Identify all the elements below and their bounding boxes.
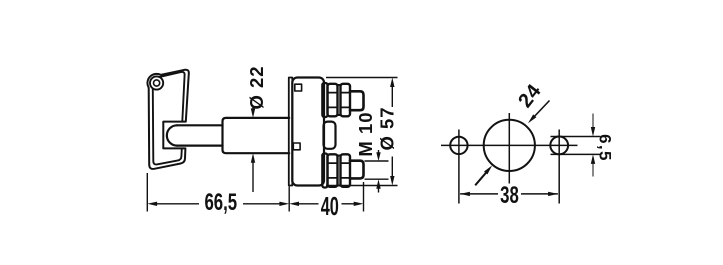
key hole ring xyxy=(150,76,163,89)
arrow unlabeled leader xyxy=(484,165,492,174)
arrow 6,5 up xyxy=(591,154,595,164)
left small circle vertical line / 38 extension xyxy=(458,130,460,204)
key hole xyxy=(154,80,160,86)
right small circle vertical line / 38 extension xyxy=(558,130,560,204)
dim M10 extension top xyxy=(365,160,389,162)
shaft bar bottom line xyxy=(177,145,223,147)
arrow M10 up xyxy=(376,179,380,189)
dim 38 line right seg xyxy=(521,193,558,195)
bottom stud washer2 xyxy=(338,156,341,186)
arrow 24 leader xyxy=(528,114,536,123)
arrow 40 right xyxy=(354,202,364,206)
key handle outer outline xyxy=(147,70,188,169)
vertical centerline big circle xyxy=(508,113,510,184)
arrowheads left view xyxy=(147,78,394,207)
top stud washer1 xyxy=(322,83,327,117)
dim O57 line upper seg xyxy=(391,85,393,108)
arrow O57 down xyxy=(390,176,394,186)
arrow O57 up xyxy=(390,78,394,88)
unlabeled leader xyxy=(475,170,488,186)
top stud nut1 xyxy=(328,84,338,117)
key handle inner outline lower xyxy=(153,89,182,164)
dim M10 extension bottom xyxy=(365,178,389,180)
svg-text:40: 40 xyxy=(321,191,339,221)
dim M10 upper stem xyxy=(378,150,380,154)
horizontal centerline xyxy=(441,144,578,146)
bottom stud nut2 xyxy=(341,154,351,187)
big circle xyxy=(484,120,535,171)
svg-text:6,5: 6,5 xyxy=(596,134,615,162)
cylinder O22 xyxy=(223,118,290,153)
dim 40 line right seg xyxy=(342,203,357,205)
svg-text:Ø 22: Ø 22 xyxy=(246,65,267,109)
dim O57 extension top xyxy=(326,77,398,79)
shaft rounded end xyxy=(167,125,177,145)
bottom stud tip M10 xyxy=(350,161,364,179)
dim 66,5 line left seg xyxy=(154,203,199,205)
arrow 38 left xyxy=(460,192,470,196)
dim 6,5 upper stem xyxy=(592,114,594,130)
switch body xyxy=(292,78,324,186)
dim 38 line left seg xyxy=(460,193,498,195)
left small circle xyxy=(450,137,467,154)
shaft bar top line xyxy=(177,124,223,126)
arrow 66,5 right xyxy=(279,202,289,206)
arrow 40 left xyxy=(289,202,299,206)
dim 40 extension right xyxy=(363,182,365,212)
key handle inner outline xyxy=(160,72,185,122)
dim O57 extension bottom xyxy=(326,185,398,187)
arrow 6,5 down xyxy=(591,127,595,137)
dim M10 lower stem xyxy=(378,187,380,193)
right small circle xyxy=(550,137,568,155)
dim 6,5 lower stem xyxy=(592,162,594,177)
dimension lines xyxy=(147,78,397,212)
top stud nut2 xyxy=(341,84,351,117)
dim O22 lower arrow stem xyxy=(252,161,254,193)
svg-text:38: 38 xyxy=(500,182,519,209)
svg-text:M 10: M 10 xyxy=(355,111,376,156)
mounting flange plate xyxy=(289,78,293,186)
arrow O22 up xyxy=(251,153,255,163)
dim 66,5 extension left xyxy=(146,173,148,212)
arrow O22 down xyxy=(251,108,255,118)
dim 40 line left seg xyxy=(296,203,319,205)
screw bottom xyxy=(293,143,300,150)
bottom stud nut1 xyxy=(328,154,338,187)
top stud tip M10 xyxy=(350,91,364,110)
bushing xyxy=(324,122,336,149)
RIGHT VIEW xyxy=(441,101,601,204)
shared extension 66,5/40 xyxy=(288,187,290,212)
bottom stud washer1 xyxy=(322,154,327,188)
dim O22 upper arrow stem xyxy=(252,107,254,112)
top stud washer2 xyxy=(338,85,341,115)
arrow 66,5 left xyxy=(147,202,157,206)
screw top xyxy=(295,84,302,91)
dim O57 line lower seg xyxy=(391,157,393,179)
dimension text left view xyxy=(204,65,397,221)
dim 6,5 extension bottom xyxy=(551,153,601,155)
arrow M10 down xyxy=(376,152,380,161)
leader 24 xyxy=(532,101,550,120)
svg-text:66,5: 66,5 xyxy=(204,189,237,216)
dim 66,5 line right seg xyxy=(243,203,282,205)
svg-text:Ø 57: Ø 57 xyxy=(377,106,398,150)
arrow 38 right xyxy=(548,192,558,196)
dim 6,5 extension top xyxy=(551,136,601,138)
